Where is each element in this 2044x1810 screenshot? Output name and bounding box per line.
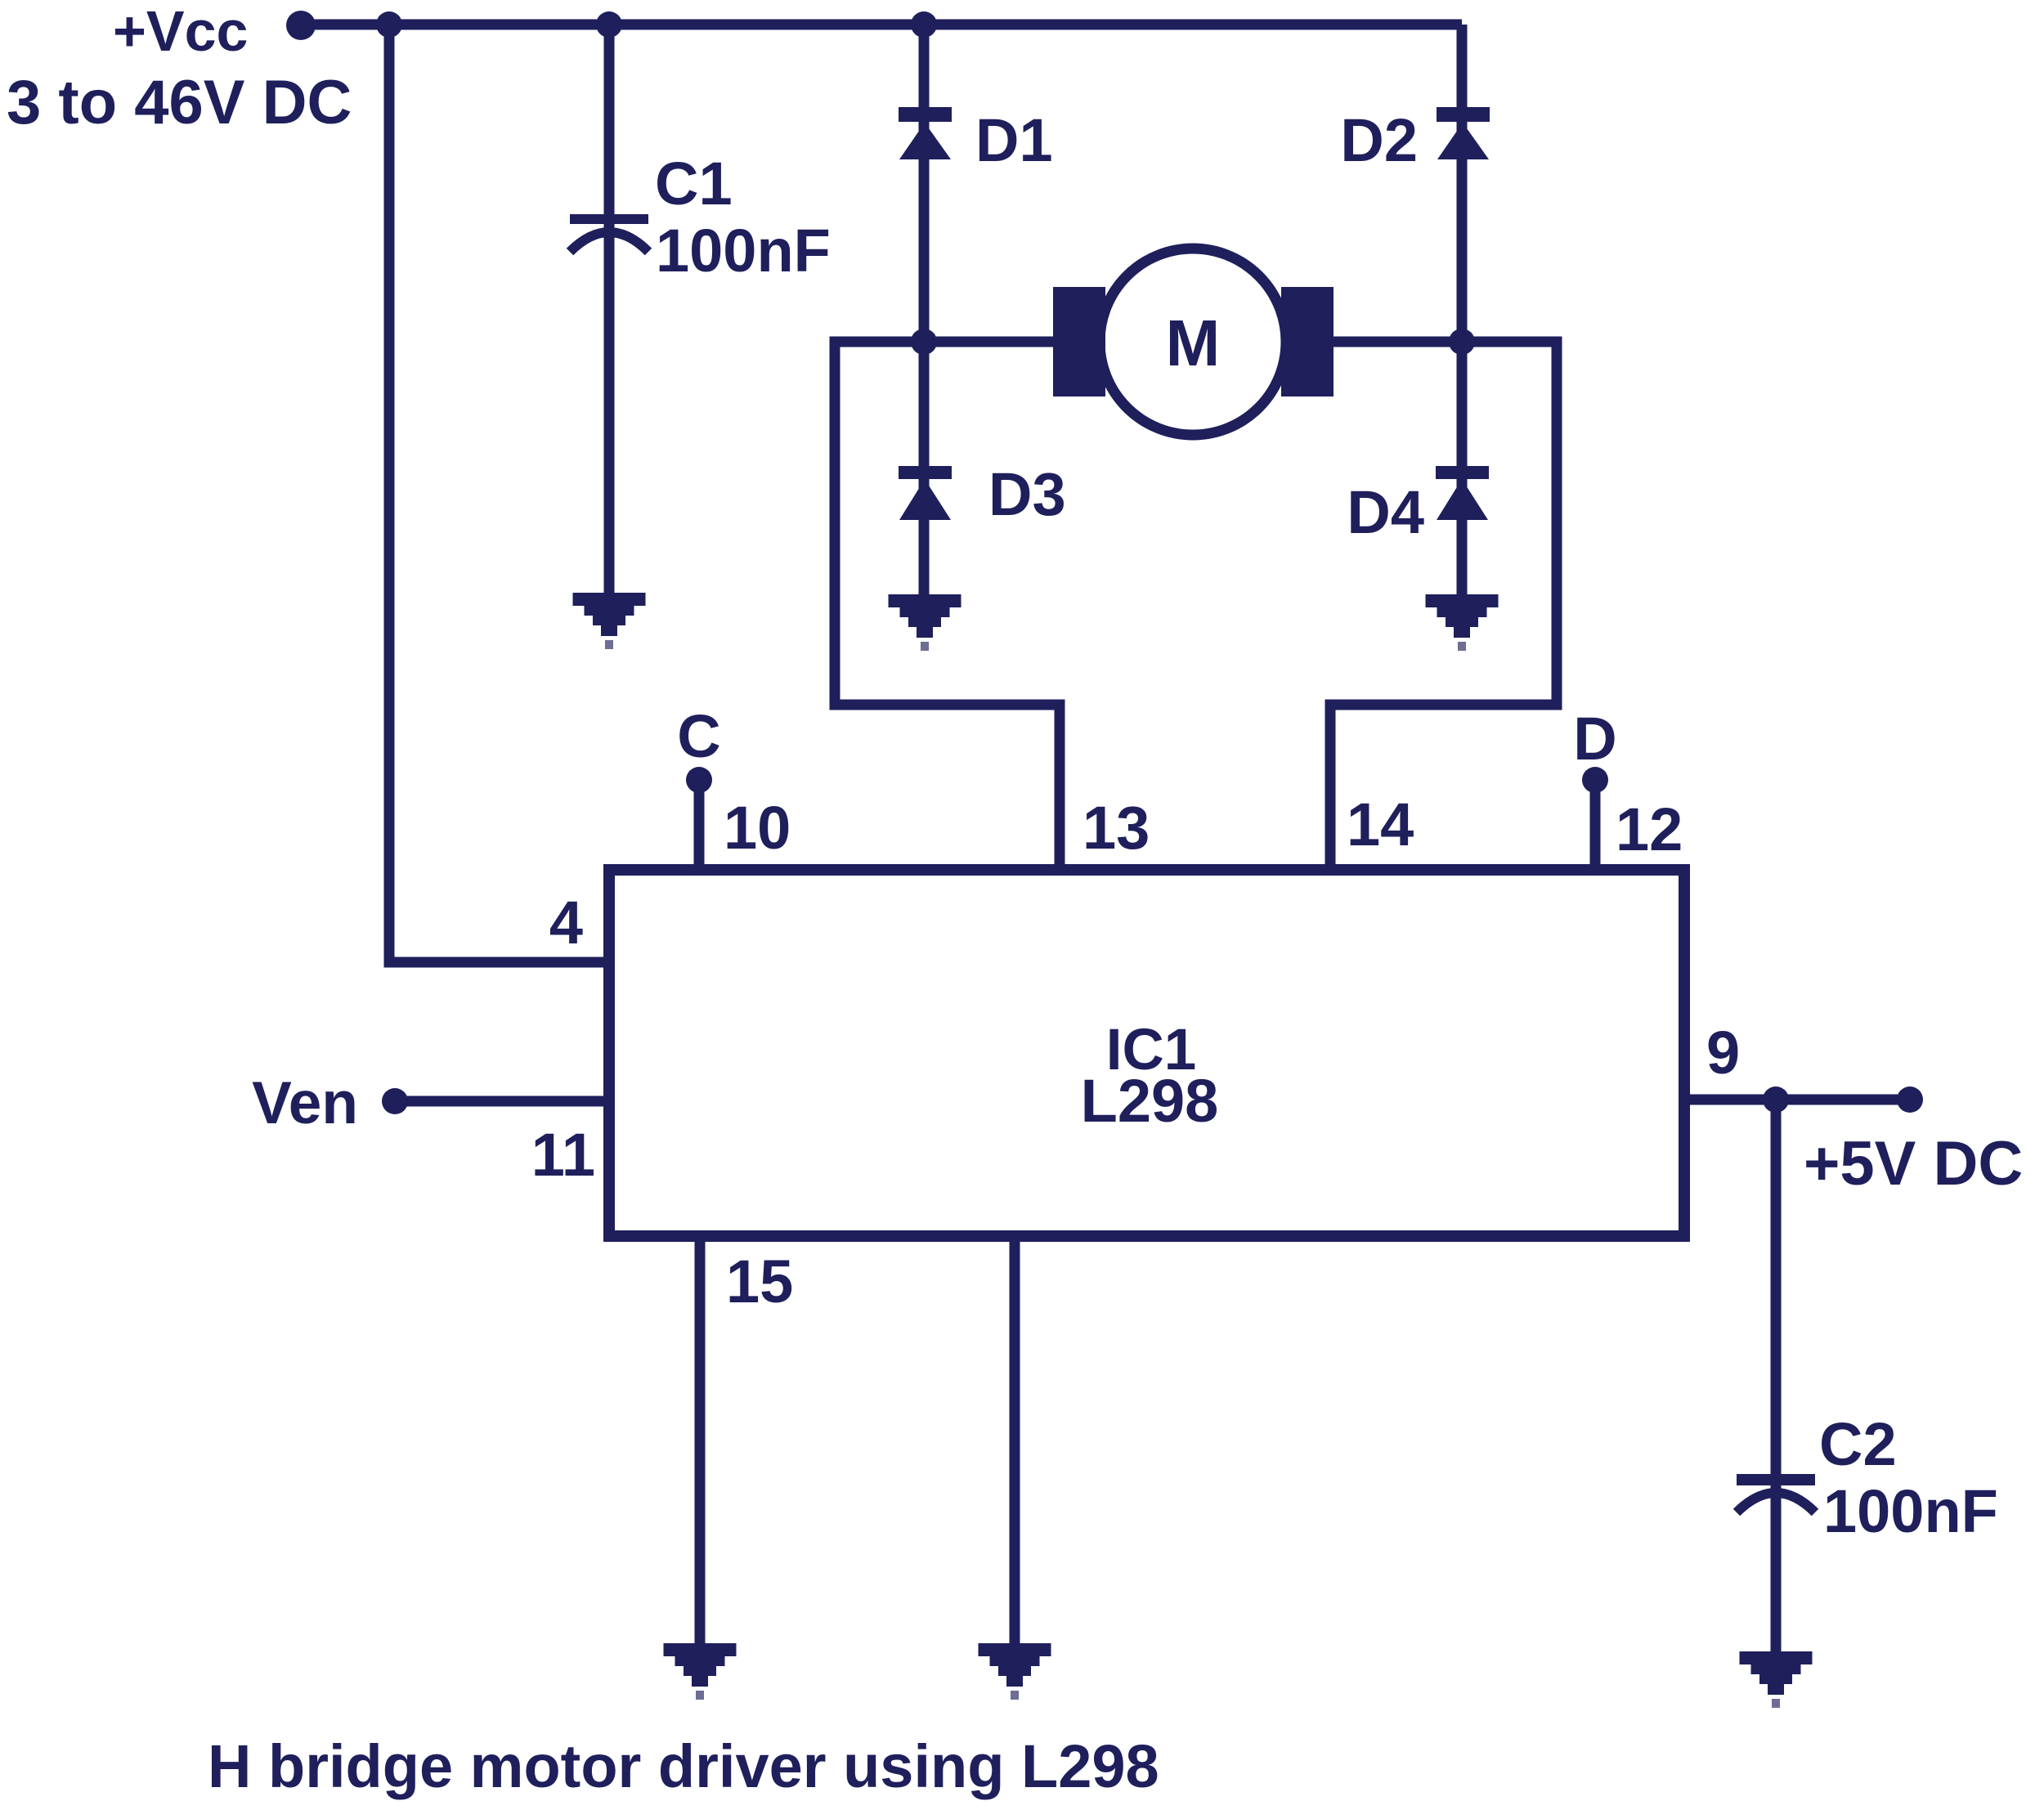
svg-text:H bridge motor driver using L2: H bridge motor driver using L298 — [208, 1732, 1159, 1800]
svg-text:D2: D2 — [1340, 106, 1418, 174]
wire pin 9 to +5V — [1684, 1095, 1910, 1105]
wire D2/D4 branch — [1457, 25, 1468, 594]
node junction C1 branch — [596, 11, 622, 38]
svg-text:D3: D3 — [988, 460, 1066, 528]
label D4 — [1347, 478, 1424, 546]
wire left loop to pin 13 — [835, 342, 1060, 875]
node terminal D — [1582, 767, 1608, 793]
wire left branch to pin 4 — [389, 25, 609, 962]
svg-text:10: 10 — [724, 794, 791, 862]
wire middle bottom pin to ground — [1010, 1236, 1020, 1643]
diode D1 — [899, 107, 952, 159]
node junction D1 branch — [911, 11, 937, 38]
label +Vcc — [113, 0, 248, 63]
pin label 14 — [1347, 791, 1414, 858]
IC U1 L298 box — [609, 870, 1684, 1236]
wire pin 10 to terminal C — [694, 780, 705, 875]
ground under middle bottom pin — [979, 1643, 1051, 1700]
wire Ven to pin 11 — [395, 1096, 609, 1107]
label D2 — [1340, 106, 1418, 174]
ground under pin 15 — [664, 1643, 737, 1700]
label 3 to 46V DC — [7, 68, 352, 137]
node +Vcc terminal — [286, 11, 316, 40]
svg-text:C: C — [677, 702, 720, 770]
ground under C2 — [1740, 1651, 1813, 1708]
pin label 4 — [549, 889, 583, 957]
svg-text:D: D — [1573, 705, 1616, 773]
svg-text:100nF: 100nF — [1823, 1477, 1998, 1545]
label C1 — [655, 150, 733, 217]
node motor left junction — [911, 329, 937, 355]
caption H bridge motor driver using L298 — [208, 1732, 1159, 1800]
diode D2 — [1437, 107, 1490, 159]
pin label 15 — [726, 1248, 793, 1315]
label C2 value 100nF — [1823, 1477, 1998, 1545]
ground under D3 — [889, 594, 961, 651]
svg-text:D1: D1 — [975, 106, 1053, 174]
ground under D4 — [1426, 594, 1499, 651]
svg-text:M: M — [1166, 307, 1221, 379]
wire motor left lead — [924, 337, 1063, 347]
svg-text:C1: C1 — [655, 150, 733, 217]
label +5V DC — [1804, 1129, 2023, 1198]
pin label 12 — [1616, 795, 1683, 863]
label D3 — [988, 460, 1066, 528]
svg-text:14: 14 — [1347, 791, 1414, 858]
pin label 11 — [531, 1121, 595, 1189]
capacitor C1 — [570, 214, 648, 252]
label C1 value 100nF — [656, 217, 831, 284]
pin label 9 — [1706, 1019, 1740, 1086]
node junction pin 9 / C2 — [1763, 1086, 1789, 1113]
svg-text:9: 9 — [1706, 1019, 1740, 1086]
svg-text:13: 13 — [1083, 794, 1150, 862]
node terminal C — [686, 767, 712, 793]
svg-text:Ven: Ven — [252, 1070, 358, 1136]
ground under C1 — [573, 593, 646, 649]
wire pin 15 to ground — [695, 1236, 706, 1643]
pin label 10 — [724, 794, 791, 862]
node terminal Ven — [382, 1088, 408, 1114]
wire C2 branch — [1771, 1100, 1782, 1651]
wire top +Vcc rail — [301, 20, 1462, 30]
svg-text:+Vcc: +Vcc — [113, 0, 248, 63]
wire pin 12 to terminal D — [1590, 780, 1601, 875]
wire motor right lead — [1325, 337, 1462, 347]
label terminal C — [677, 702, 720, 770]
diode D3 — [899, 466, 952, 520]
motor M — [1053, 249, 1334, 435]
svg-text:D4: D4 — [1347, 478, 1424, 546]
diode D4 — [1436, 466, 1489, 520]
svg-text:15: 15 — [726, 1248, 793, 1315]
svg-text:11: 11 — [531, 1121, 595, 1189]
wire C1 branch from rail to ground — [604, 25, 615, 593]
capacitor C2 — [1737, 1474, 1815, 1512]
svg-text:100nF: 100nF — [656, 217, 831, 284]
label terminal D — [1573, 705, 1616, 773]
label C2 — [1819, 1410, 1897, 1478]
svg-text:+5V DC: +5V DC — [1804, 1129, 2023, 1198]
svg-text:C2: C2 — [1819, 1410, 1897, 1478]
svg-text:3 to 46V DC: 3 to 46V DC — [7, 68, 352, 137]
node motor right junction — [1449, 329, 1475, 355]
node terminal +5V — [1897, 1086, 1923, 1113]
node junction left branch — [376, 11, 402, 38]
label D1 — [975, 106, 1053, 174]
svg-text:4: 4 — [549, 889, 583, 957]
pin label 13 — [1083, 794, 1150, 862]
svg-text:12: 12 — [1616, 795, 1683, 863]
wire D1/D3 branch — [919, 25, 930, 594]
label Ven — [252, 1070, 358, 1136]
svg-text:L298: L298 — [1081, 1067, 1219, 1135]
wire right loop to pin 14 — [1330, 342, 1557, 875]
